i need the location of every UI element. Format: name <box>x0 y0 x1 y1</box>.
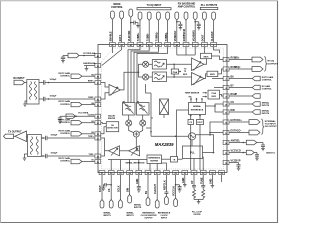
connector J16 <box>119 200 123 209</box>
wires serial boxes <box>190 115 201 171</box>
PLL box <box>183 146 203 159</box>
wire bottom pin7 <box>156 175 158 200</box>
svg-text:10: 10 <box>225 104 227 106</box>
node dot pin9 <box>175 184 177 186</box>
svg-text:47: 47 <box>167 44 169 47</box>
svg-text:13: 13 <box>225 133 227 135</box>
svg-text:TXRF+: TXRF+ <box>88 136 94 138</box>
wire J12 to pin <box>213 21 215 42</box>
bottom vertical labels <box>99 177 213 196</box>
wire PA to TX balun <box>27 135 28 137</box>
svg-text:35: 35 <box>97 105 99 107</box>
wire VCO to LO bus <box>151 135 188 137</box>
wire TXBBI- routing <box>131 47 149 103</box>
svg-text:MUX: MUX <box>212 96 217 98</box>
wire TXBBI- <box>148 21 150 42</box>
svg-text:ANTSEL: ANTSEL <box>231 140 241 143</box>
pin numbers bottom <box>101 172 224 175</box>
svg-text:GND: GND <box>182 177 185 183</box>
svg-text:VCCVCO: VCCVCO <box>231 150 241 153</box>
flag RXHP input <box>252 94 260 99</box>
ground under RX balun <box>23 101 27 106</box>
ground under C4 <box>61 61 65 63</box>
node dot LO2 <box>150 131 152 133</box>
svg-text:VCCBYP: VCCBYP <box>231 160 241 163</box>
connector J12 <box>212 12 216 21</box>
filter F2 lowpass Q <box>152 72 166 82</box>
svg-text:VCCPA: VCCPA <box>88 113 95 116</box>
svg-text:30: 30 <box>97 156 99 158</box>
transformer T2 TX balun <box>28 135 42 157</box>
SERIAL INTERFACE box <box>189 103 206 115</box>
wire RX pins to LNA <box>101 83 109 100</box>
wire MUX I to pin <box>212 56 224 60</box>
svg-text:RX/TX GAIN: RX/TX GAIN <box>262 76 274 79</box>
wire pa det to pins <box>101 123 106 134</box>
svg-text:DOUT: DOUT <box>202 34 205 41</box>
mixer M4 <box>140 120 146 126</box>
wire modulators to mixers <box>129 115 143 120</box>
svg-text:SERIAL: SERIAL <box>103 212 111 215</box>
TX driver amp 2 <box>109 146 120 156</box>
wire TX2 to output pins <box>101 138 109 156</box>
TX path mux box <box>160 99 169 115</box>
svg-text:9: 9 <box>225 96 226 98</box>
svg-text:48: 48 <box>176 44 178 47</box>
node dot PGA tap Q <box>173 76 175 78</box>
wire gain pins stub <box>212 79 223 88</box>
svg-text:SCLK: SCLK <box>117 185 120 192</box>
svg-text:31: 31 <box>193 173 195 175</box>
connector J18 <box>146 197 150 205</box>
svg-text:TXBBQ+: TXBBQ+ <box>156 31 159 41</box>
ground under C7 <box>58 121 62 123</box>
left pin boxes column <box>95 54 101 164</box>
wire callout2 to pin <box>82 104 95 106</box>
arrow PGA out <box>179 71 182 72</box>
TX filter box I <box>123 103 136 116</box>
wire RXBBI to flag <box>229 59 252 61</box>
svg-text:TX I/Q INPUT: TX I/Q INPUT <box>147 4 162 7</box>
svg-text:CS: CS <box>231 101 235 104</box>
wire LNA to mixers <box>121 72 139 90</box>
wire RXBBQ to flag <box>229 68 252 70</box>
svg-text:INPUT: INPUT <box>161 218 168 220</box>
svg-text:OR OUTPUT: OR OUTPUT <box>265 126 278 128</box>
node dot LO <box>175 136 177 138</box>
svg-text:RXRF+: RXRF+ <box>88 81 94 83</box>
svg-text:1000pF: 1000pF <box>51 152 59 154</box>
ground under C1 <box>136 23 140 28</box>
serial interface up arrows <box>190 98 202 102</box>
right pin boxes column <box>223 57 229 164</box>
VGA amplifier I <box>192 58 205 71</box>
svg-text:11: 11 <box>225 112 227 114</box>
flag VCCTXPA <box>66 114 76 118</box>
flag RXBBQ output <box>252 67 263 72</box>
wire EXTVCO+ to flag <box>229 121 249 123</box>
svg-text:OUTPUTS: OUTPUTS <box>268 64 279 66</box>
divider box <box>171 157 178 163</box>
ground under C13 <box>102 188 106 190</box>
wire bottom pin4 <box>129 175 131 195</box>
flag RX/TX gain control input <box>252 76 260 81</box>
svg-text:B4: B4 <box>91 102 93 105</box>
svg-text:REFERENCE: REFERENCE <box>148 158 160 160</box>
flag TX gain control callout 3 <box>71 121 82 125</box>
wire serial in 1 to flag <box>229 103 252 105</box>
flag EXTVCO- <box>249 130 260 135</box>
wire MUX Q to pin <box>218 69 223 74</box>
svg-text:CONTROL: CONTROL <box>262 80 273 82</box>
ground pin10 <box>183 185 187 187</box>
svg-text:BUFFER: BUFFER <box>150 160 158 162</box>
svg-text:CONTROL: CONTROL <box>60 75 71 77</box>
wire VGA Q to MUX <box>204 74 207 79</box>
wire ANTSEL <box>229 142 263 144</box>
node dot PGA tap I <box>173 64 175 66</box>
mixer M1 <box>143 61 149 67</box>
capacitor C3 to ground <box>195 22 201 28</box>
svg-text:INPUTS: INPUTS <box>103 215 111 217</box>
svg-text:30: 30 <box>184 173 186 175</box>
node dot pin2 <box>110 184 112 186</box>
wire refbuf to divider <box>162 158 171 160</box>
flag ANTSEL <box>246 140 256 145</box>
svg-text:RX GAIN: RX GAIN <box>262 85 271 88</box>
node dot VCC <box>243 152 245 154</box>
PLL loop filter: wire TUNE <box>202 175 204 186</box>
svg-text:31: 31 <box>97 138 99 140</box>
svg-text:PGA: PGA <box>173 71 178 74</box>
connector J1 ENABLE <box>111 11 115 20</box>
LO bus vertical <box>146 84 151 136</box>
transformer T1 RX balun <box>27 80 39 105</box>
svg-text:DETECTOR: DETECTOR <box>107 128 118 130</box>
svg-text:1000pF: 1000pF <box>50 96 58 98</box>
svg-text:TXBBI-: TXBBI- <box>146 33 149 41</box>
svg-text:INPUTS: INPUTS <box>134 207 142 209</box>
svg-text:INPUTS: INPUTS <box>126 215 134 217</box>
gain arrow VGA Q <box>194 76 202 85</box>
ground under C2 <box>179 28 183 30</box>
svg-text:VCMDAC: VCMDAC <box>174 30 177 41</box>
svg-text:40: 40 <box>97 55 99 58</box>
svg-text:CONTROL: CONTROL <box>60 122 71 124</box>
svg-text:SERIAL: SERIAL <box>193 105 202 108</box>
wire bottom pin13 <box>221 175 223 182</box>
wire VCC pin <box>229 152 257 154</box>
RX INPUT flag <box>14 80 25 84</box>
TX filter box Q <box>137 103 150 116</box>
svg-text:GND/VCC: GND/VCC <box>266 152 276 154</box>
capacitor C15 series <box>164 192 168 196</box>
ground under TX balun <box>23 154 28 160</box>
mixer M3 <box>126 120 132 126</box>
PGA block <box>171 69 178 74</box>
svg-text:SERIAL: SERIAL <box>262 102 270 105</box>
svg-text:1: 1 <box>185 45 186 47</box>
svg-text:EXTVCO+: EXTVCO+ <box>231 119 243 122</box>
wire bottom pin1 <box>101 175 103 200</box>
flag serial input 1 <box>252 102 260 107</box>
node dot ANTSEL <box>243 142 245 144</box>
wire callout3 to pin <box>82 122 95 124</box>
connector J15 <box>109 200 113 208</box>
svg-text:RXHP: RXHP <box>231 93 238 96</box>
capacitor C2 to ground <box>177 22 183 28</box>
svg-text:B1: B1 <box>91 160 93 162</box>
svg-text:INPUTS: INPUTS <box>262 105 270 107</box>
node dot TXRF- <box>42 155 44 157</box>
wire mixer I to filter <box>149 63 152 65</box>
svg-text:GND: GND <box>136 178 139 184</box>
pin numbers top <box>111 44 215 47</box>
node dot RXRF+ <box>48 82 50 84</box>
svg-text:RX/TX GAIN: RX/TX GAIN <box>59 129 71 132</box>
svg-text:SERIAL: SERIAL <box>126 212 134 215</box>
wire J8 to pin <box>176 20 178 42</box>
MUX box I <box>201 53 212 58</box>
svg-text:TIA: TIA <box>188 95 192 98</box>
connector J7 TXBBQ- <box>166 12 170 21</box>
svg-text:INPUTS: INPUTS <box>262 113 270 115</box>
connector J21 <box>174 198 178 207</box>
svg-text:REFCLK: REFCLK <box>163 180 166 190</box>
wire VCCRXLNA to pin <box>63 55 95 57</box>
capacitor C13 <box>104 183 112 188</box>
wire B7 to flag <box>229 87 252 89</box>
wire TXBBI+ <box>139 21 141 42</box>
svg-text:VL/DVDD: VL/DVDD <box>128 30 131 41</box>
brace external VCO <box>261 119 264 134</box>
svg-text:SERIAL: SERIAL <box>262 110 270 113</box>
VCO oscillator <box>188 133 195 140</box>
node dot osc line <box>209 134 211 136</box>
svg-text:TXBBI+: TXBBI+ <box>137 32 140 41</box>
wire to RX mixer I <box>139 64 143 72</box>
svg-text:1000pF: 1000pF <box>51 134 59 136</box>
svg-text:29: 29 <box>175 173 177 175</box>
wire callout5 to pin <box>82 161 95 163</box>
flag VCC <box>246 150 254 155</box>
wire refclk up <box>162 163 167 170</box>
svg-text:GND: GND <box>210 178 213 184</box>
wire VCCTXPA branch <box>60 115 95 117</box>
node dot serial <box>214 105 216 107</box>
connector J20 ref clock input <box>165 196 169 205</box>
IC U1 MAX2839 outer body <box>98 45 227 173</box>
capacitor C16 to ground <box>176 185 182 190</box>
svg-text:CONTROL: CONTROL <box>60 161 71 163</box>
flag RX gain control callout 1 <box>71 74 82 78</box>
svg-text:CLKOUT: CLKOUT <box>211 31 214 41</box>
svg-text:28: 28 <box>165 173 167 175</box>
svg-text:43: 43 <box>130 44 132 47</box>
wire VCO to PLL <box>191 140 193 146</box>
ground under C12 <box>237 168 241 170</box>
svg-text:TUNE: TUNE <box>200 177 203 184</box>
small box A under serial <box>188 120 194 125</box>
TX OUTPUT flag <box>4 134 14 138</box>
svg-text:RX/TX GAIN: RX/TX GAIN <box>59 72 71 75</box>
capacitor C14 <box>137 187 141 190</box>
flag RXBBI output <box>252 57 263 62</box>
svg-text:RX/TX GAIN: RX/TX GAIN <box>59 157 71 160</box>
svg-text:RX/TX GAIN: RX/TX GAIN <box>59 118 71 121</box>
capacitor C10 to ground <box>261 143 265 149</box>
vertical pin labels top <box>110 29 214 41</box>
wire TXBBI+ routing <box>128 47 140 103</box>
svg-text:DIN: DIN <box>231 109 235 112</box>
wire RXTX diagonal <box>102 47 122 66</box>
wire bottom pin8 REFCLK <box>165 175 167 192</box>
svg-text:DOUT: DOUT <box>99 185 102 192</box>
wire mixers to summer <box>129 126 143 133</box>
svg-text:8: 8 <box>225 88 226 90</box>
svg-text:42: 42 <box>121 44 123 47</box>
svg-text:1000pF: 1000pF <box>50 79 58 81</box>
PA detector box <box>106 122 118 132</box>
node dot pll fb <box>213 152 215 154</box>
wire RXBB control stubs <box>177 47 195 55</box>
ground under C11 <box>255 158 259 160</box>
capacitor C4 to ground <box>61 56 65 61</box>
capacitor C12 to ground <box>237 163 241 169</box>
svg-text:PLL: PLL <box>190 150 195 154</box>
capacitor C18 <box>201 186 205 190</box>
svg-text:MAX2839: MAX2839 <box>155 142 174 147</box>
wire PGA vertical link <box>173 64 175 77</box>
svg-text:VCCCLK: VCCCLK <box>173 186 176 196</box>
svg-text:RXBBVCM: RXBBVCM <box>183 29 186 41</box>
wire TXBBQ+ routing <box>134 47 158 103</box>
MUX box Q <box>207 71 218 76</box>
svg-text:INTERFACE: INTERFACE <box>191 108 204 111</box>
ground under C10 <box>261 148 265 150</box>
svg-text:PGA: PGA <box>212 92 217 95</box>
svg-text:DRIVER: DRIVER <box>108 118 116 120</box>
wire PGA MUX to pin <box>220 95 224 97</box>
svg-text:MUX: MUX <box>204 56 209 58</box>
svg-text:23: 23 <box>119 173 121 175</box>
left wire pin name labels <box>88 74 95 161</box>
svg-text:CP: CP <box>191 180 194 184</box>
wire TXBBQ+ <box>157 21 159 42</box>
svg-text:CONTROL: CONTROL <box>262 89 273 91</box>
top pin boxes row <box>110 42 217 46</box>
summer S1 <box>133 131 139 137</box>
wire bottom pin2 <box>110 175 112 200</box>
svg-text:AMP CONTROL: AMP CONTROL <box>178 5 196 8</box>
svg-text:DIN: DIN <box>127 188 130 192</box>
wire callout1 to pin <box>82 75 95 77</box>
flag RX gain control input <box>252 85 260 90</box>
svg-text:CONTROL: CONTROL <box>60 104 71 106</box>
connector J17 <box>128 195 132 204</box>
IC inner dashed boundary <box>102 48 224 169</box>
wire B6 to flag <box>229 78 252 80</box>
wire EXTVCO- to flag <box>229 132 249 134</box>
PLL loop filter: wire CP <box>193 175 195 186</box>
ground under C3 <box>197 28 201 30</box>
connector J11 <box>203 12 207 21</box>
capacitor C9 1000pF <box>41 154 94 158</box>
wire VDD to pin <box>130 18 132 42</box>
svg-text:PLL OUTPUTS: PLL OUTPUTS <box>201 4 218 7</box>
wire J11 to pin <box>203 21 205 42</box>
node dot TXRF+ <box>42 137 44 139</box>
small box B under serial <box>197 120 204 125</box>
PULL-UP OUTPUTS group bar <box>200 7 218 9</box>
node dot J10 <box>194 21 196 23</box>
svg-text:CONTROL: CONTROL <box>111 6 123 9</box>
wire TX1 to TX2 <box>120 150 129 152</box>
svg-text:12: 12 <box>225 122 227 124</box>
svg-text:RXBBQ±: RXBBQ± <box>231 66 242 69</box>
reference buffer box <box>147 155 162 164</box>
TX driver amp 1 <box>129 146 140 156</box>
connector J5 TXBBI- <box>147 12 151 21</box>
svg-text:TX OUTPUT: TX OUTPUT <box>8 131 22 134</box>
brace RX I/Q outputs <box>264 57 267 72</box>
svg-text:5: 5 <box>225 60 226 62</box>
wire bottom pin9 <box>175 175 177 198</box>
wire ENABLE to pin <box>111 20 113 42</box>
flag serial input 2 <box>252 110 260 115</box>
connector J19 <box>155 200 159 209</box>
svg-text:VGABIAS: VGABIAS <box>192 30 195 41</box>
flag TX gain control callout 4 <box>71 132 82 136</box>
capacitor C11 to ground <box>255 153 259 159</box>
ground pin12 <box>211 186 215 188</box>
svg-text:CONTROL: CONTROL <box>60 133 71 135</box>
wire TXBBQ- <box>167 21 169 42</box>
ground GNDRXLNA <box>85 66 89 71</box>
connector J10 <box>193 12 197 20</box>
svg-text:6: 6 <box>225 69 226 71</box>
PGA MUX box <box>208 90 220 99</box>
wire VCO to EXTVCO and PLL feedback <box>196 122 224 153</box>
bottom pin boxes row <box>99 171 224 175</box>
wire bottom pin12 gnd <box>211 175 213 186</box>
wire J10 to pin <box>194 20 196 42</box>
svg-text:33: 33 <box>97 123 99 125</box>
svg-text:RXTX: RXTX <box>119 34 122 41</box>
wire divider to PLL <box>178 158 183 160</box>
wire filter I to VGA <box>167 63 192 65</box>
wire RXTX to pin <box>121 20 123 42</box>
node dot on VDD wire <box>130 22 132 24</box>
svg-text:45: 45 <box>148 44 150 47</box>
connector J14 <box>100 200 104 209</box>
svg-text:SERIAL: SERIAL <box>134 204 142 207</box>
svg-text:RX/TX GAIN: RX/TX GAIN <box>59 100 71 103</box>
svg-text:29: 29 <box>97 162 99 164</box>
svg-text:RXBBI±: RXBBI± <box>231 57 240 60</box>
svg-text:CLKOUT: CLKOUT <box>154 184 157 194</box>
connector J8 <box>175 12 179 20</box>
svg-text:ENABLE: ENABLE <box>110 31 113 41</box>
svg-text:41: 41 <box>111 44 113 47</box>
serial bus internal <box>108 110 189 170</box>
svg-text:B3: B3 <box>91 121 93 123</box>
capacitor C8 1000pF <box>41 136 94 140</box>
svg-text:36: 36 <box>97 99 99 101</box>
pin numbers left <box>97 55 100 164</box>
svg-text:39: 39 <box>97 66 99 68</box>
wire filter Q to VGA <box>167 76 192 78</box>
